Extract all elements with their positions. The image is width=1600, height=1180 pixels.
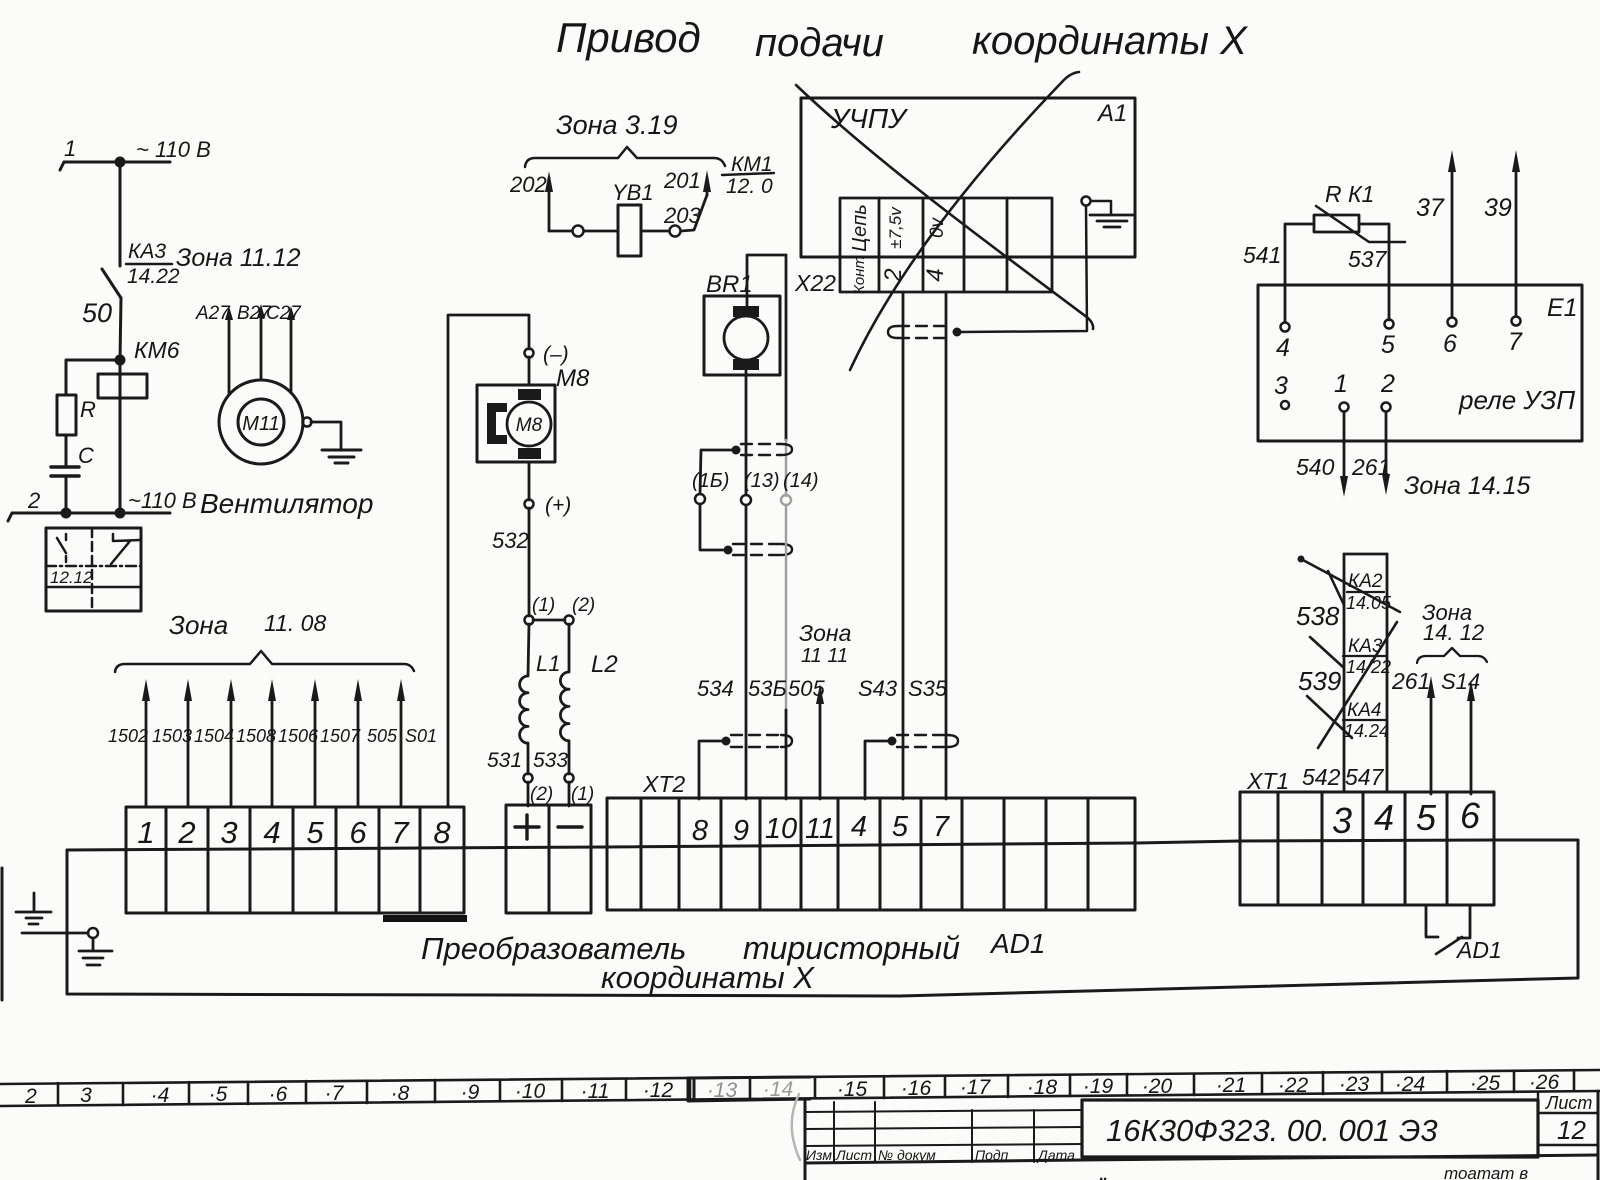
twisted pair symbol middle: [724, 544, 793, 555]
wire branch to R: [66, 360, 120, 395]
ground terminal circle in AD1: [88, 928, 98, 938]
svg-text:С27: С27: [266, 303, 302, 324]
svg-text:5: 5: [1416, 797, 1437, 838]
wire 13 conductor down to XT2:9: [745, 505, 748, 799]
svg-text:·18: ·18: [1027, 1076, 1058, 1099]
svg-text:5: 5: [306, 815, 324, 850]
pin 7 of E1: [1512, 317, 1521, 326]
svg-text:261: 261: [1351, 454, 1390, 480]
brace zone 11.08: [115, 651, 414, 672]
resistor RK1: [1314, 215, 1359, 232]
terminal strip XT2: [607, 798, 1135, 910]
svg-text:·16: ·16: [901, 1077, 932, 1100]
svg-text:±7,5v: ±7,5v: [886, 206, 905, 249]
svg-text:(2): (2): [572, 595, 595, 616]
svg-text:·11: ·11: [581, 1080, 610, 1103]
svg-text:Зона 3.19: Зона 3.19: [556, 110, 678, 140]
frame edge left: [1, 868, 4, 1000]
svg-text:АD1: АD1: [1455, 937, 1502, 963]
svg-text:R: R: [80, 397, 96, 422]
svg-text:ХТ2: ХТ2: [642, 771, 685, 797]
svg-text:~110 B: ~110 B: [128, 488, 197, 513]
svg-text:541: 541: [1243, 242, 1281, 268]
title block footer labels: [806, 1147, 1075, 1163]
svg-text:Вентилятор: Вентилятор: [200, 488, 373, 519]
svg-text:„: „: [1099, 1159, 1108, 1180]
svg-text:1503: 1503: [152, 726, 192, 746]
svg-text:№ докум: № докум: [878, 1147, 936, 1163]
format frame marks at ruler cells 13-14: [688, 1077, 810, 1101]
svg-text:533: 533: [533, 749, 568, 772]
AD1 cable slash: [1436, 937, 1462, 954]
twisted pair symbol X22 cable: [888, 326, 962, 338]
svg-text:4: 4: [851, 811, 867, 843]
resistor R: [57, 395, 76, 435]
svg-text:КА3: КА3: [128, 240, 166, 263]
terminal (1) of L1: [525, 616, 534, 625]
svg-text:16К30Ф323. 00. 001 Э3: 16К30Ф323. 00. 001 Э3: [1106, 1113, 1438, 1148]
svg-text:2: 2: [27, 488, 40, 513]
svg-text:·20: ·20: [1142, 1075, 1173, 1098]
wire 110V top: [60, 162, 170, 170]
svg-text:·26: ·26: [1529, 1071, 1560, 1094]
solenoid YB1: [618, 205, 641, 256]
svg-text:7: 7: [391, 815, 410, 850]
wire to ground A1: [1091, 201, 1111, 215]
contact KA4 blade: [1307, 696, 1352, 738]
junction coil bottom: [115, 508, 126, 519]
svg-text:А27: А27: [195, 303, 231, 324]
terminal numbers 1-8: [137, 815, 451, 850]
svg-text:1: 1: [1334, 370, 1348, 398]
svg-text:4: 4: [1276, 334, 1290, 362]
terminal (1) bottom of L2: [565, 774, 574, 783]
svg-text:·21: ·21: [1216, 1074, 1246, 1097]
svg-text:(–): (–): [543, 343, 569, 366]
svg-text:(1): (1): [532, 595, 555, 616]
wire C to bottom: [65, 476, 68, 513]
wire 1507 up arrow: [357, 694, 360, 807]
svg-text:·6: ·6: [269, 1083, 288, 1106]
svg-text:12.12: 12.12: [50, 568, 93, 587]
svg-text:1507: 1507: [320, 726, 361, 746]
wire 202 with up arrow: [548, 178, 551, 231]
paper edge artifact left of title block: [792, 1094, 800, 1160]
svg-text:9: 9: [733, 815, 749, 847]
svg-text:6: 6: [349, 815, 367, 850]
wire 542 vertical: [1343, 554, 1346, 792]
svg-text:547: 547: [1345, 764, 1385, 790]
svg-text:·22: ·22: [1278, 1074, 1309, 1097]
svg-text:·10: ·10: [515, 1080, 546, 1103]
svg-text:S35: S35: [908, 676, 948, 701]
CNC unit A1 (УЧПУ): [801, 98, 1135, 257]
wire 1506 up arrow: [314, 694, 317, 807]
svg-text:C: C: [78, 443, 94, 468]
contact symbol left cell: [57, 534, 66, 562]
M11 frame terminal: [303, 418, 312, 427]
svg-text:L1: L1: [536, 651, 560, 676]
svg-text:·24: ·24: [1395, 1073, 1425, 1096]
aux contact box 12.12: [46, 528, 141, 611]
svg-text:Х22: Х22: [794, 270, 836, 296]
svg-text:Зона 14.15: Зона 14.15: [1404, 472, 1531, 500]
svg-text:Лист: Лист: [1545, 1093, 1592, 1113]
RK1 thermistor stroke: [1316, 206, 1405, 242]
svg-text:542: 542: [1302, 764, 1341, 790]
wire through coil to bottom: [119, 360, 122, 513]
svg-text:Цепь: Цепь: [849, 204, 871, 252]
motor M11: [219, 380, 303, 464]
svg-text:2: 2: [1380, 370, 1395, 398]
artifact black bar: [383, 915, 467, 922]
label Преобразователь тиристорный AD1: [421, 928, 1045, 995]
svg-text:·23: ·23: [1339, 1073, 1370, 1096]
document number cell: [1082, 1100, 1538, 1157]
wire 261 down arrow: [1385, 412, 1388, 480]
ground AD1: [79, 938, 112, 965]
wire cable shield to A1 ground: [961, 206, 1087, 332]
terminal strip 1-8: [126, 807, 464, 913]
wire 547 vertical: [1386, 554, 1389, 792]
capacitor C: [51, 467, 79, 476]
wire switch to KM6 node: [120, 298, 121, 360]
svg-text:7: 7: [933, 811, 951, 843]
svg-text:14.22: 14.22: [127, 265, 180, 288]
svg-text:538: 538: [1296, 601, 1340, 631]
wire 1504 up arrow: [230, 694, 233, 807]
svg-text:14. 12: 14. 12: [1423, 620, 1484, 645]
sheet column: [1538, 1092, 1598, 1157]
brace zone 14.12: [1417, 648, 1487, 663]
wire 1503 up arrow: [187, 694, 190, 807]
wire BR1 output down: [745, 370, 748, 495]
svg-text:·25: ·25: [1470, 1072, 1501, 1095]
pin 4 of E1: [1281, 323, 1290, 332]
svg-text:532: 532: [492, 528, 529, 553]
wire (1Б) branch: [700, 450, 732, 494]
svg-text:505: 505: [367, 726, 398, 746]
wire M11 to ground: [311, 422, 341, 450]
inductor L2: [560, 624, 569, 774]
svg-text:·4: ·4: [151, 1084, 170, 1107]
svg-text:координаты Х: координаты Х: [972, 19, 1248, 63]
svg-text:11. 08: 11. 08: [264, 610, 326, 636]
wire R to C: [65, 435, 68, 467]
XT2 terminal numbers: [692, 811, 951, 847]
wire L1 to plus terminal: [527, 782, 530, 806]
svg-text:1502: 1502: [108, 726, 148, 746]
drawing zone ruler: [0, 1070, 1600, 1106]
twisted pair symbol lower (534): [722, 735, 793, 747]
contact KA2 blade: [1328, 571, 1344, 605]
terminal (2) bottom of L1: [524, 774, 533, 783]
svg-text:39: 39: [1484, 194, 1512, 222]
terminal circle 203: [670, 226, 681, 237]
cable loop above BR1: [747, 255, 786, 307]
wire 1Б down to cable: [700, 504, 723, 550]
svg-text:3: 3: [220, 815, 237, 850]
svg-text:Зона: Зона: [169, 610, 228, 640]
svg-text:(1Б): (1Б): [692, 470, 729, 492]
svg-text:8: 8: [692, 815, 708, 847]
svg-text:261: 261: [1391, 668, 1430, 694]
svg-text:S14: S14: [1441, 669, 1480, 694]
wire 201 up arrow: [706, 180, 709, 195]
switch KA3 blade: [102, 269, 121, 298]
wire cable right conductor (to 14): [785, 255, 788, 440]
wire 1502 up arrow: [145, 694, 148, 807]
wire S01 loop from terminal 8 to M8 minus: [448, 315, 529, 807]
pin 5 of E1: [1385, 320, 1394, 329]
ground terminal circle in A1: [1082, 197, 1091, 206]
svg-text:50: 50: [82, 298, 112, 328]
svg-text:531: 531: [487, 749, 522, 772]
svg-text:·5: ·5: [209, 1083, 228, 1106]
wire X22 pin4 down to XT2:7: [945, 292, 948, 799]
link wire (1)-(2): [533, 619, 565, 622]
twisted pair symbol upper: [732, 444, 793, 455]
junction C bottom: [61, 508, 72, 519]
brace zone 3.19: [525, 147, 725, 167]
crossing-out stroke A over A1: [796, 85, 1093, 329]
svg-text:2: 2: [24, 1085, 37, 1108]
svg-text:КА4: КА4: [1347, 700, 1381, 721]
terminal (-) of M8: [525, 349, 534, 358]
svg-text:1: 1: [137, 815, 154, 850]
svg-text:7: 7: [1508, 328, 1523, 356]
svg-text:(13): (13): [744, 470, 780, 492]
tachogenerator BR1: [704, 296, 780, 375]
svg-text:подачи: подачи: [755, 21, 884, 65]
title block left grid: [805, 1102, 1082, 1162]
wire 202 to YB1: [549, 230, 572, 233]
svg-text:Е1: Е1: [1547, 294, 1578, 322]
junction top: [115, 157, 126, 168]
svg-text:Зона: Зона: [799, 620, 851, 646]
terminal circle 13: [741, 495, 751, 505]
wire 532: [528, 508, 531, 616]
chassis ground outside: [16, 893, 51, 924]
pin 6 of E1: [1448, 318, 1457, 327]
svg-text:4: 4: [922, 268, 949, 281]
svg-text:ХТ1: ХТ1: [1246, 768, 1289, 794]
svg-text:14.05: 14.05: [1346, 593, 1392, 613]
svg-text:1506: 1506: [278, 726, 319, 746]
contact symbol right cell: [111, 534, 140, 564]
svg-text:(+): (+): [545, 494, 571, 517]
svg-text:37: 37: [1416, 194, 1445, 222]
motor M11 leads A27 B27 C27: [229, 318, 291, 395]
wire RK1 right (537): [1359, 224, 1389, 320]
svg-text:1508: 1508: [236, 726, 276, 746]
terminal strip plus-minus: [506, 805, 591, 913]
connector X22 table: [840, 198, 1052, 292]
svg-text:YB1: YB1: [612, 180, 654, 205]
wire top link 542-547: [1344, 553, 1387, 556]
ground A1: [1090, 215, 1134, 227]
svg-text:1504: 1504: [194, 726, 234, 746]
wire M8 to (+): [528, 462, 531, 500]
svg-text:537: 537: [1348, 246, 1388, 272]
svg-text:координаты Х: координаты Х: [601, 960, 815, 995]
svg-text:Изм: Изм: [806, 1147, 832, 1163]
svg-text:14.24: 14.24: [1344, 721, 1389, 741]
svg-text:202: 202: [509, 172, 547, 197]
ground M11: [322, 450, 361, 463]
svg-text:(1): (1): [571, 784, 594, 805]
wire (-) to M8 box: [528, 357, 531, 385]
svg-text:3: 3: [80, 1084, 92, 1107]
svg-text:201: 201: [663, 168, 701, 193]
terminal (2) of L2: [565, 616, 574, 625]
svg-text:(2): (2): [530, 784, 553, 805]
svg-text:·14: ·14: [763, 1078, 793, 1101]
wires XT1 5,6 to AD1 tap: [1426, 905, 1438, 937]
svg-text:L2: L2: [591, 651, 618, 678]
svg-text:Зона 11.12: Зона 11.12: [176, 244, 301, 272]
svg-text:М8: М8: [516, 415, 543, 436]
ruler zone numbers: [24, 1071, 1559, 1108]
wire YB1 to 203 terminal: [641, 230, 669, 233]
svg-text:·19: ·19: [1083, 1075, 1114, 1098]
contact KA3 blade: [1310, 637, 1343, 667]
svg-text:~ 110 B: ~ 110 B: [136, 137, 211, 162]
wire 110V bottom: [8, 513, 170, 521]
svg-text:10: 10: [765, 813, 797, 845]
svg-text:1: 1: [64, 136, 76, 161]
svg-text:12. 0: 12. 0: [726, 175, 773, 198]
svg-text:Подп: Подп: [975, 1147, 1009, 1163]
svg-text:М8: М8: [556, 365, 590, 392]
svg-text:Дата: Дата: [1036, 1147, 1075, 1163]
wire 14 conductor down to XT2:10: [785, 505, 787, 710]
svg-text:Лист: Лист: [835, 1147, 872, 1163]
wire 505a up arrow: [400, 694, 403, 807]
svg-text:5: 5: [1381, 331, 1395, 359]
svg-text:3: 3: [1274, 372, 1288, 400]
XT1 terminal numbers: [1332, 795, 1481, 841]
svg-text:АD1: АD1: [989, 928, 1045, 959]
svg-text:11 11: 11 11: [801, 645, 848, 667]
contact KA2 stroke: [1301, 559, 1400, 612]
terminal (+) of M8: [525, 500, 534, 509]
inductor L1: [520, 624, 529, 774]
wire X22 pin2 down to XT2:5: [902, 292, 905, 799]
svg-text:·15: ·15: [837, 1078, 868, 1101]
terminal strip XT1: [1240, 792, 1494, 905]
junction KM6 node: [115, 355, 126, 366]
title block frame: [805, 1091, 1598, 1180]
svg-text:реле УЗП: реле УЗП: [1458, 385, 1575, 415]
terminal plus: [515, 815, 539, 839]
svg-text:12: 12: [1557, 1115, 1586, 1145]
svg-text:539: 539: [1298, 666, 1341, 696]
svg-text:2: 2: [177, 815, 195, 850]
svg-text:КМ6: КМ6: [134, 337, 180, 363]
terminal circle left of YB1: [573, 226, 584, 237]
svg-text:R К1: R К1: [1325, 181, 1374, 207]
wire S43 branch to XT2:4: [865, 741, 888, 799]
wire 203 to 201: [681, 195, 707, 231]
svg-text:8: 8: [433, 815, 451, 850]
svg-text:11: 11: [805, 813, 835, 845]
svg-text:·7: ·7: [325, 1082, 345, 1105]
wire L2 to minus terminal: [568, 782, 571, 806]
svg-text:6: 6: [1443, 330, 1457, 358]
wire to YB1 coil: [584, 230, 618, 233]
wire 505 with up arrow to XT2:11: [819, 700, 822, 799]
bus line through terminal strips: [67, 840, 1494, 850]
wire to converter ground: [22, 932, 88, 935]
svg-text:6: 6: [1460, 795, 1481, 836]
svg-text:S01: S01: [405, 726, 437, 746]
crossing-out stroke B over A1: [850, 72, 1079, 370]
label KA3/14.22: [127, 240, 180, 288]
terminal minus: [558, 825, 582, 828]
wire 37 up arrow: [1451, 158, 1454, 317]
svg-text:КА2: КА2: [1348, 571, 1383, 592]
svg-text:S43: S43: [858, 676, 898, 701]
svg-text:Конт: Конт: [851, 256, 868, 294]
svg-text:М11: М11: [242, 413, 279, 435]
wire 534 branch to XT2:8: [699, 741, 722, 799]
svg-text:Привод: Привод: [556, 14, 701, 61]
svg-text:тоатат в: тоатат в: [1444, 1164, 1528, 1180]
wire 261 up arrow to XT1:5: [1430, 692, 1433, 794]
wire S14 up arrow to XT1:6: [1470, 696, 1473, 794]
svg-text:·9: ·9: [461, 1081, 480, 1104]
wire 540 down arrow: [1343, 412, 1346, 482]
wire 1508 up arrow: [271, 694, 274, 807]
svg-text:А1: А1: [1096, 100, 1127, 127]
svg-text:·17: ·17: [960, 1076, 992, 1099]
labels A27 B27 C27: [195, 303, 302, 324]
relay UZP block E1: [1258, 285, 1582, 441]
svg-text:·12: ·12: [643, 1079, 674, 1102]
wire down to switch: [119, 162, 122, 266]
title: Привод подачи координаты X: [556, 14, 1248, 65]
terminal circle 14 (faded): [781, 495, 791, 505]
motor M8: [477, 385, 555, 462]
svg-text:540: 540: [1296, 454, 1335, 480]
wire RK1 left (541): [1285, 224, 1314, 322]
svg-text:3: 3: [1332, 800, 1352, 841]
svg-text:·8: ·8: [391, 1082, 410, 1105]
twisted pair symbol lower (S43): [888, 735, 959, 747]
contactor coil KM6: [98, 374, 147, 398]
svg-text:4: 4: [263, 815, 280, 850]
svg-text:·13: ·13: [707, 1079, 738, 1102]
terminal circle 1Б: [695, 494, 705, 504]
wire 39 up arrow: [1515, 158, 1518, 316]
svg-text:53Б: 53Б: [748, 676, 787, 701]
wire number labels 1502..S01: [108, 726, 437, 746]
svg-text:УЧПУ: УЧПУ: [830, 103, 909, 134]
svg-text:4: 4: [1374, 797, 1394, 838]
svg-text:(14): (14): [783, 470, 819, 492]
crossing-out stroke over KA3-KA4: [1318, 622, 1397, 748]
converter block AD1 outline: [67, 840, 1578, 996]
svg-text:534: 534: [697, 676, 734, 701]
svg-text:5: 5: [892, 811, 909, 843]
